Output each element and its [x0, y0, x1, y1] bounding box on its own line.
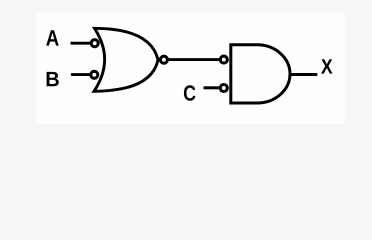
scan background panel [36, 12, 346, 125]
wire X output [291, 73, 317, 76]
wire C input [204, 86, 220, 89]
label A [46, 30, 59, 45]
label C [184, 85, 196, 101]
wire A input [71, 42, 91, 45]
wire B input [71, 73, 90, 76]
label X [321, 59, 332, 73]
label B [47, 72, 59, 86]
inversion bubble U2 bottom input (C) [220, 85, 227, 92]
inversion bubble U2 top input [220, 56, 227, 63]
inversion bubble A input [91, 40, 98, 47]
inversion bubble U1 output [160, 56, 167, 63]
inversion bubble B input [91, 71, 98, 78]
wire U1 output to U2 input [168, 58, 220, 61]
AND gate U2 body [231, 45, 290, 103]
OR gate U1 body [94, 28, 158, 91]
